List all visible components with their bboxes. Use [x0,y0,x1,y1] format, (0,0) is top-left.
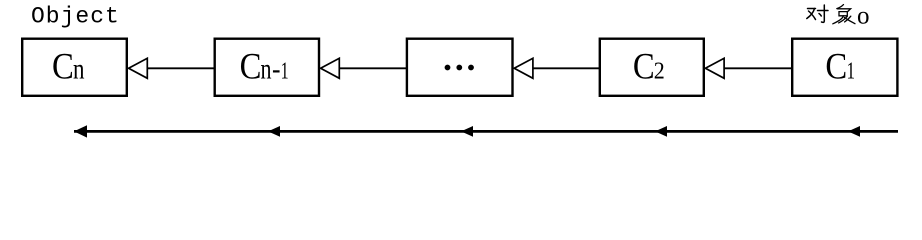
svg-text:C: C [240,47,262,88]
class box C2 [600,39,704,96]
svg-text:1: 1 [281,59,289,85]
label C1 [825,47,855,88]
wire C2 to ellipsis arrowhead [533,67,599,69]
svg-text:C: C [633,47,655,88]
wire ellipsis box to Cn-1 arrowhead [339,67,406,69]
bottom arrowhead at Cn [74,125,87,137]
label 对象o : char 象 [833,5,855,24]
label Cn-1 [240,47,289,88]
inheritance arrowhead into ellipsis box [514,58,533,78]
label 对象o : char 对 [807,5,828,22]
label C2 [633,47,665,88]
bottom arrowhead at Cn-1 [268,126,280,137]
bottom arrowhead at C2 [655,126,667,137]
class box Cn [22,39,127,96]
wire Cn-1 to Cn arrowhead [147,67,214,69]
svg-text:Object: Object [31,4,120,30]
svg-text:n: n [261,53,272,86]
bottom chain line [74,130,898,133]
inheritance arrowhead into Cn-1 [321,58,340,78]
class box ellipsis [407,39,513,96]
label Cn [52,47,85,88]
svg-text:1: 1 [847,59,856,85]
class box C1 [792,39,897,96]
svg-text:C: C [52,47,74,88]
svg-text:n: n [73,53,85,86]
bottom arrowhead at C1 [848,126,860,137]
svg-text:2: 2 [654,59,665,85]
bottom arrowhead at ellipsis [461,126,473,137]
inheritance arrowhead into Cn [129,58,148,78]
svg-text:-: - [272,53,281,86]
inheritance arrowhead into C2 [705,58,724,78]
class box Cn-1 [215,39,319,96]
label ellipsis dots [445,65,474,71]
svg-text:C: C [825,47,847,88]
wire C1 to C2 arrowhead [724,67,792,69]
label Object [31,4,120,30]
label 对象o : letter o [857,3,870,30]
svg-text:o: o [857,3,870,30]
